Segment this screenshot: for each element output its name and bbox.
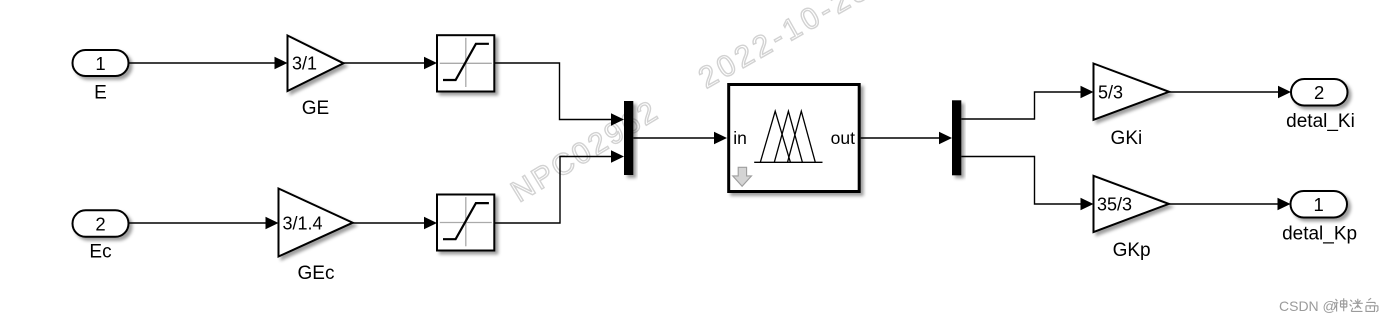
svg-text:detal_Ki: detal_Ki [1286, 111, 1355, 132]
membership functions [754, 111, 822, 162]
wire GE to saturation1 [344, 62, 426, 64]
svg-text:3/1: 3/1 [292, 53, 317, 73]
svg-text:GEc: GEc [298, 263, 335, 284]
outport 2 [1291, 79, 1348, 106]
wire saturation2 to mux [494, 157, 612, 224]
mux [624, 101, 633, 175]
svg-text:1: 1 [95, 53, 105, 74]
svg-text:GE: GE [302, 98, 329, 119]
svg-text:3/1.4: 3/1.4 [283, 213, 323, 233]
wire GKi to outport2 [1169, 91, 1279, 93]
wire fuzzy to demux [861, 137, 940, 139]
wire mux to fuzzy [633, 137, 715, 139]
fuzzy logic controller U1 [729, 85, 860, 192]
inport 1 (E) [73, 50, 129, 76]
CSDN watermark [1279, 298, 1378, 314]
gain GEc [279, 189, 353, 257]
svg-text:E: E [94, 83, 107, 104]
svg-text:2: 2 [95, 213, 105, 234]
svg-text:in: in [733, 128, 747, 148]
wire demux to GKi [961, 92, 1081, 119]
outport 1 [1291, 191, 1348, 218]
watermark NPC02962 2022-10-25 [505, 0, 877, 209]
gray down arrow [733, 167, 752, 186]
wire GKp to outport1 [1169, 203, 1279, 205]
saturation block 1 [437, 35, 494, 91]
svg-text:GKi: GKi [1111, 128, 1143, 149]
inport 2 (Ec) [73, 210, 129, 237]
svg-text:1: 1 [1314, 194, 1324, 215]
wire GEc to saturation2 [353, 222, 425, 224]
gain GE [288, 36, 344, 92]
wire demux to GKp [961, 157, 1081, 205]
saturation block 2 [437, 195, 494, 251]
svg-text:5/3: 5/3 [1098, 82, 1123, 102]
svg-text:CSDN @: CSDN @ [1279, 298, 1337, 314]
svg-text:out: out [831, 128, 855, 148]
demux [952, 100, 961, 175]
svg-text:2: 2 [1314, 82, 1324, 103]
gain GKp [1094, 176, 1169, 232]
svg-text:detal_Kp: detal_Kp [1282, 224, 1357, 245]
wire port2 to GEc [129, 222, 268, 224]
svg-text:GKp: GKp [1113, 240, 1151, 261]
wire port1 to GE [129, 62, 277, 64]
wire saturation1 to mux [494, 63, 612, 120]
gain GKi [1094, 64, 1170, 120]
svg-text:35/3: 35/3 [1097, 194, 1132, 214]
svg-text:Ec: Ec [89, 242, 111, 263]
